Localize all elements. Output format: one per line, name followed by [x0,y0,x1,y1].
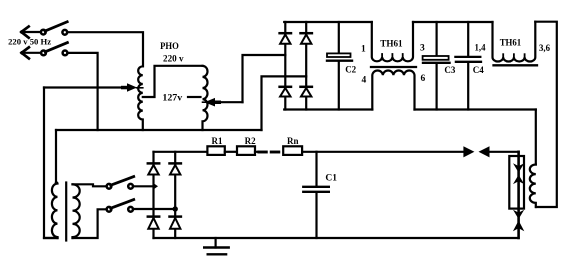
tube arrow up lower [513,221,524,232]
svg-text:3,6: 3,6 [539,43,550,53]
220v step link [143,66,203,97]
tube arrow up upper [513,175,524,184]
TH61 no.1 top winding [372,22,413,61]
svg-text:6: 6 [421,74,426,84]
svg-text:C1: C1 [325,174,337,184]
svg-text:220 v: 220 v [163,54,184,64]
diode D4 [301,87,312,97]
bridge2 right column [174,152,176,238]
filter bottom rail mid [415,108,536,110]
T2 secondary winding [73,184,80,238]
wire S2a to bridge2 left column [133,185,153,187]
capacitor C4 [455,22,481,110]
discharge tube body [509,156,524,209]
diode D7 [148,217,159,229]
svg-text:127v: 127v [162,93,182,103]
diode D1 [280,33,291,44]
capacitor C1 [303,152,329,238]
diode D6 [170,163,181,174]
switch S1a [41,22,67,35]
bridge1 bottom rail [284,108,372,110]
filter top rail mid [413,21,493,23]
svg-text:ТН61: ТН61 [500,38,522,48]
diode D3 [280,87,291,97]
TH61 no.1 bottom winding [372,71,414,110]
tap lead dash at 127v [188,96,201,98]
HF coupling coil L1 [530,165,536,208]
svg-text:4: 4 [362,75,367,85]
capacitor C3 [423,22,450,110]
svg-text:Rn: Rn [287,136,299,146]
resistor R2 [237,146,255,155]
wire 127v tap to bridge1 left AC input [243,55,286,102]
svg-text:РНО: РНО [160,42,179,52]
junction dot bridge2 right [173,206,178,211]
svg-text:ТН61: ТН61 [380,39,403,49]
wire S1b to common rail [68,53,98,130]
wire R2 stub [255,151,258,153]
tube arrow down lower [513,210,524,219]
svg-text:1: 1 [361,45,366,55]
resistor Rn [283,146,302,155]
wire R1-R2 [225,151,237,153]
autotransformer primary winding (left coil) [138,66,143,130]
bridge1 left column [284,22,286,110]
spark gap left-pointing arrow [479,146,490,157]
wire common rail to bridge1 right AC input [262,76,307,130]
svg-text:220 v 50 Hz: 220 v 50 Hz [8,37,51,47]
T2 step-down transformer primary top stub [55,130,57,182]
svg-text:C2: C2 [345,64,356,74]
long wire Rn to spark gap [302,151,465,153]
wire filter bottom rail down to HF coil [535,110,537,165]
switch S2b [107,200,134,212]
svg-text:R2: R2 [245,136,256,146]
bridge2 left column [152,152,154,238]
bridge2 top rail to R chain wire [154,151,208,153]
TH61 no.2 winding [493,22,536,62]
wire S2b to bridge2 right column [133,208,175,210]
wire spark gap to tube electrode [488,151,518,153]
switch S2a [107,177,134,189]
tube center electrode line [517,152,520,238]
TH61 no.1 core [371,66,416,68]
T2 secondary top wire to switch S2a [73,184,107,186]
T2 primary winding [52,182,58,238]
autotransformer secondary winding (right coil) [203,66,208,130]
junction dot bridge2 left [153,183,158,190]
diode D5 [148,163,159,174]
bridge1 right column [305,22,307,110]
wire S1a to autotransformer top [67,32,143,66]
spark gap right-pointing arrow [463,146,474,157]
PHO common bottom rail [56,129,262,131]
mains input arrow upper [21,27,41,38]
T2 core [65,183,67,241]
bridge1 top rail [284,21,372,23]
long bottom return rail [154,237,519,239]
T2 secondary bottom wire to switch S2b [73,209,107,238]
capacitor C2 [327,22,352,110]
wire TH61 no.2 output over and down to coil bottom [535,22,557,207]
ground [204,238,229,254]
svg-text:C3: C3 [444,65,455,75]
resistor R1 [207,146,224,155]
T2 primary bottom link [44,237,58,239]
mains input arrow lower [22,47,42,58]
svg-text:R1: R1 [212,136,223,146]
diode D8 [170,217,181,229]
wire slider down to T2 primary bottom [44,88,58,239]
switch S1b [41,43,67,56]
dashed continuation [259,151,267,154]
TH61 no.2 winding cusps [503,54,524,58]
svg-text:1,4: 1,4 [475,42,486,52]
TH61 no.1 top winding cusps [382,54,403,58]
primary slider arrow [44,83,143,91]
tube arrow down upper [513,163,524,172]
svg-text:3: 3 [420,43,425,53]
svg-text:C4: C4 [473,65,484,75]
TH61 no.2 core [494,64,538,66]
diode D2 [301,33,312,44]
127v tap arrow [203,98,243,107]
